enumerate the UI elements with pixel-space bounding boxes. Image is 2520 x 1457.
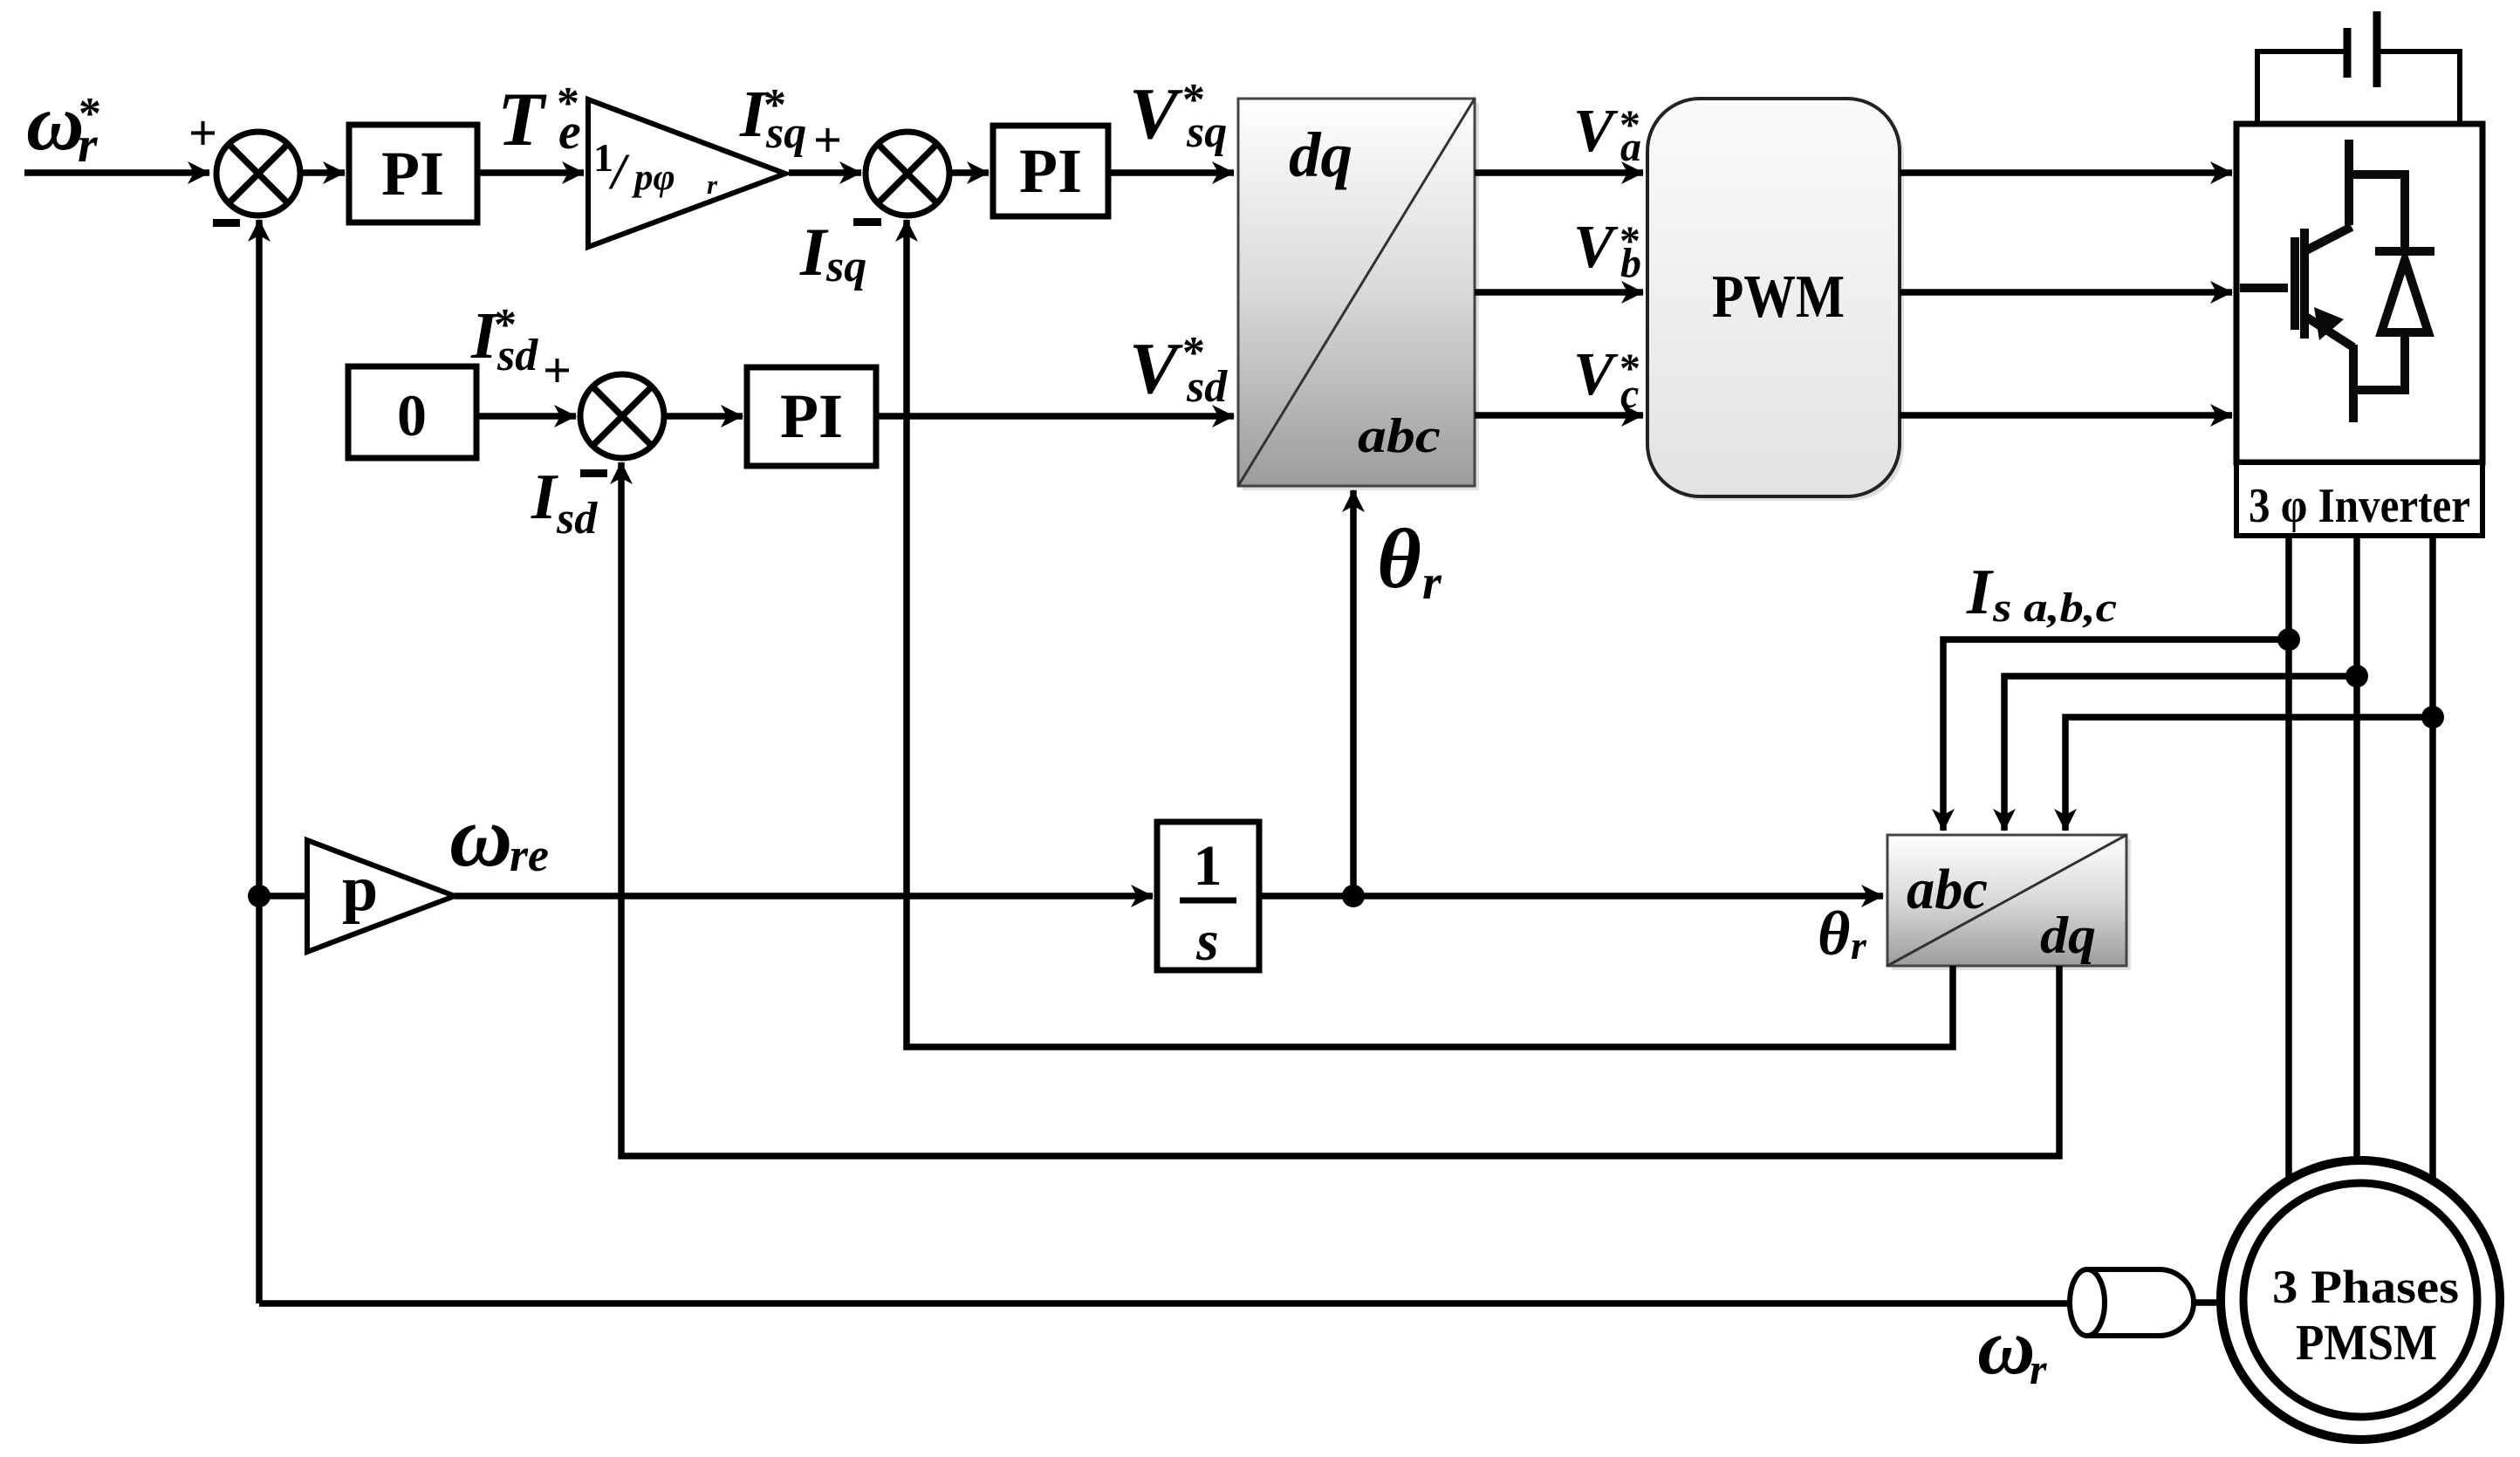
svg-text:sq: sq	[825, 242, 866, 291]
wire current sense phase a to abc/dq block	[1943, 640, 2289, 831]
svg-text:T: T	[497, 78, 547, 162]
p gain triangle (pole pairs)	[307, 840, 455, 952]
wire U1 to PWM phase c	[1475, 412, 1643, 419]
wire theta_r up to U1	[1350, 490, 1357, 896]
svg-text:e: e	[558, 103, 581, 160]
dq to abc transform block U1	[1238, 99, 1479, 490]
inverter label box "3 phi Inverter"	[2236, 462, 2482, 536]
wire encoder to motor	[2194, 1299, 2223, 1306]
PI controller PI2 (q current)	[993, 126, 1108, 216]
svg-text:sq: sq	[765, 108, 806, 158]
svg-text:θ: θ	[1818, 899, 1850, 968]
IGBT Q1 with anti-parallel diode D1 (inside inverter)	[2240, 140, 2434, 422]
svg-text:ω: ω	[26, 78, 85, 167]
svg-text:0: 0	[397, 382, 427, 448]
integrator block 1/s	[1157, 822, 1259, 973]
inverter box	[2236, 124, 2482, 462]
DC link battery	[2257, 11, 2460, 126]
svg-text:r: r	[1422, 556, 1442, 610]
svg-text:V: V	[1573, 214, 1619, 281]
svg-text:ω: ω	[1977, 1302, 2036, 1391]
svg-text:PMSM: PMSM	[2296, 1314, 2437, 1371]
wire PWM to inverter gate a	[1900, 169, 2232, 176]
wire U1 to PWM phase b	[1475, 289, 1643, 296]
svg-text:r: r	[707, 169, 718, 200]
svg-text:p: p	[342, 853, 378, 925]
junction node phase a tap	[2277, 628, 2300, 651]
wire gain to summing junction S2	[789, 169, 861, 176]
svg-text:s a,b,c: s a,b,c	[1992, 585, 2117, 631]
PI controller PI3 (d current)	[747, 367, 876, 466]
svg-text:V: V	[1573, 98, 1619, 165]
PWM block	[1647, 99, 1904, 501]
svg-text:sd: sd	[556, 494, 598, 544]
wire S3 to PI3	[664, 413, 743, 420]
svg-text:r: r	[78, 116, 98, 173]
wire inverter output phase a	[2285, 536, 2292, 1178]
wire S2 to PI2	[949, 169, 989, 176]
svg-text:1: 1	[593, 135, 613, 180]
motor: 3 Phases PMSM	[2221, 1160, 2500, 1440]
wire PWM to inverter gate c	[1900, 412, 2232, 419]
svg-text:sq: sq	[1186, 107, 1227, 157]
summing junction S2	[866, 132, 949, 215]
wire current sense phase b to abc/dq block	[2004, 676, 2357, 831]
svg-text:re: re	[510, 829, 549, 881]
svg-text:s: s	[1195, 909, 1219, 973]
svg-text:r: r	[1851, 923, 1867, 968]
svg-text:ω: ω	[449, 788, 512, 885]
wire current sense phase c to abc/dq block	[2065, 717, 2433, 831]
svg-text:I: I	[1966, 557, 1994, 628]
wire U1 to PWM phase a	[1475, 169, 1643, 176]
wire Isd feedback from U2 to S3	[621, 462, 2059, 1156]
svg-text:1: 1	[1194, 834, 1222, 898]
gain block 1/p-phi-r (triangle)	[588, 99, 785, 247]
wire: speed reference input	[24, 169, 209, 176]
junction node phase c tap	[2421, 706, 2444, 728]
svg-text:V: V	[1129, 328, 1183, 409]
wire tap to p gain	[259, 893, 307, 900]
wire zero block to summing junction S3	[476, 413, 576, 420]
svg-text:b: b	[1620, 240, 1641, 286]
minus sign at summing junction S1	[213, 219, 240, 227]
svg-text:dq: dq	[2040, 906, 2096, 964]
svg-text:PI: PI	[780, 381, 843, 451]
svg-text:3 Phases: 3 Phases	[2272, 1261, 2459, 1313]
svg-text:PI: PI	[381, 139, 444, 209]
wire inverter output phase c	[2429, 536, 2436, 1178]
wire p gain to integrator	[455, 893, 1153, 900]
wire speed feedback up to S1	[256, 220, 263, 1303]
junction node theta_r tap	[1342, 885, 1365, 907]
PI controller PI1 (speed)	[349, 125, 477, 222]
svg-text:dq: dq	[1289, 120, 1352, 190]
svg-text:abc: abc	[1358, 409, 1441, 463]
summing junction S3	[580, 374, 664, 458]
zero reference block	[348, 366, 476, 458]
svg-text:abc: abc	[1907, 858, 1988, 921]
svg-text:V: V	[1573, 341, 1619, 408]
svg-text:r: r	[2030, 1344, 2047, 1393]
svg-text:3 φ Inverter: 3 φ Inverter	[2249, 479, 2470, 533]
wire PI3 to dq/abc block	[876, 413, 1234, 420]
svg-text:PI: PI	[1019, 136, 1082, 206]
encoder (speed sensor cylinder)	[2070, 1269, 2194, 1336]
svg-text:PWM: PWM	[1712, 263, 1845, 331]
svg-text:I: I	[531, 462, 558, 533]
minus sign at summing junction S2	[853, 218, 881, 226]
svg-text:c: c	[1620, 371, 1639, 417]
abc to dq transform block U2	[1887, 835, 2131, 970]
wire inverter output phase b	[2353, 536, 2360, 1159]
wire PI2 to dq/abc block	[1108, 169, 1234, 176]
wire speed feedback horizontal from encoder	[259, 1300, 2071, 1307]
svg-text:sd: sd	[1186, 362, 1228, 412]
minus sign at summing junction S3	[580, 469, 607, 477]
svg-text:+: +	[813, 112, 842, 168]
junction node speed feedback tap	[248, 885, 270, 907]
wire PWM to inverter gate b	[1900, 289, 2232, 296]
svg-text:pφ: pφ	[631, 157, 675, 198]
junction node phase b tap	[2345, 665, 2368, 687]
wire PI1 to gain block	[477, 169, 584, 176]
svg-text:V: V	[1129, 73, 1183, 154]
svg-text:a: a	[1620, 124, 1641, 170]
svg-text:+: +	[188, 105, 217, 161]
wire integrator to U2 (theta_r)	[1259, 893, 1883, 900]
svg-text:+: +	[543, 342, 572, 399]
svg-text:I: I	[799, 214, 829, 290]
wire Isq feedback from U2 to S2	[907, 220, 1953, 1047]
wire S1 to PI1	[300, 169, 345, 176]
svg-text:sd: sd	[496, 331, 538, 380]
summing junction S1	[216, 132, 300, 215]
svg-text:θ: θ	[1377, 512, 1421, 606]
